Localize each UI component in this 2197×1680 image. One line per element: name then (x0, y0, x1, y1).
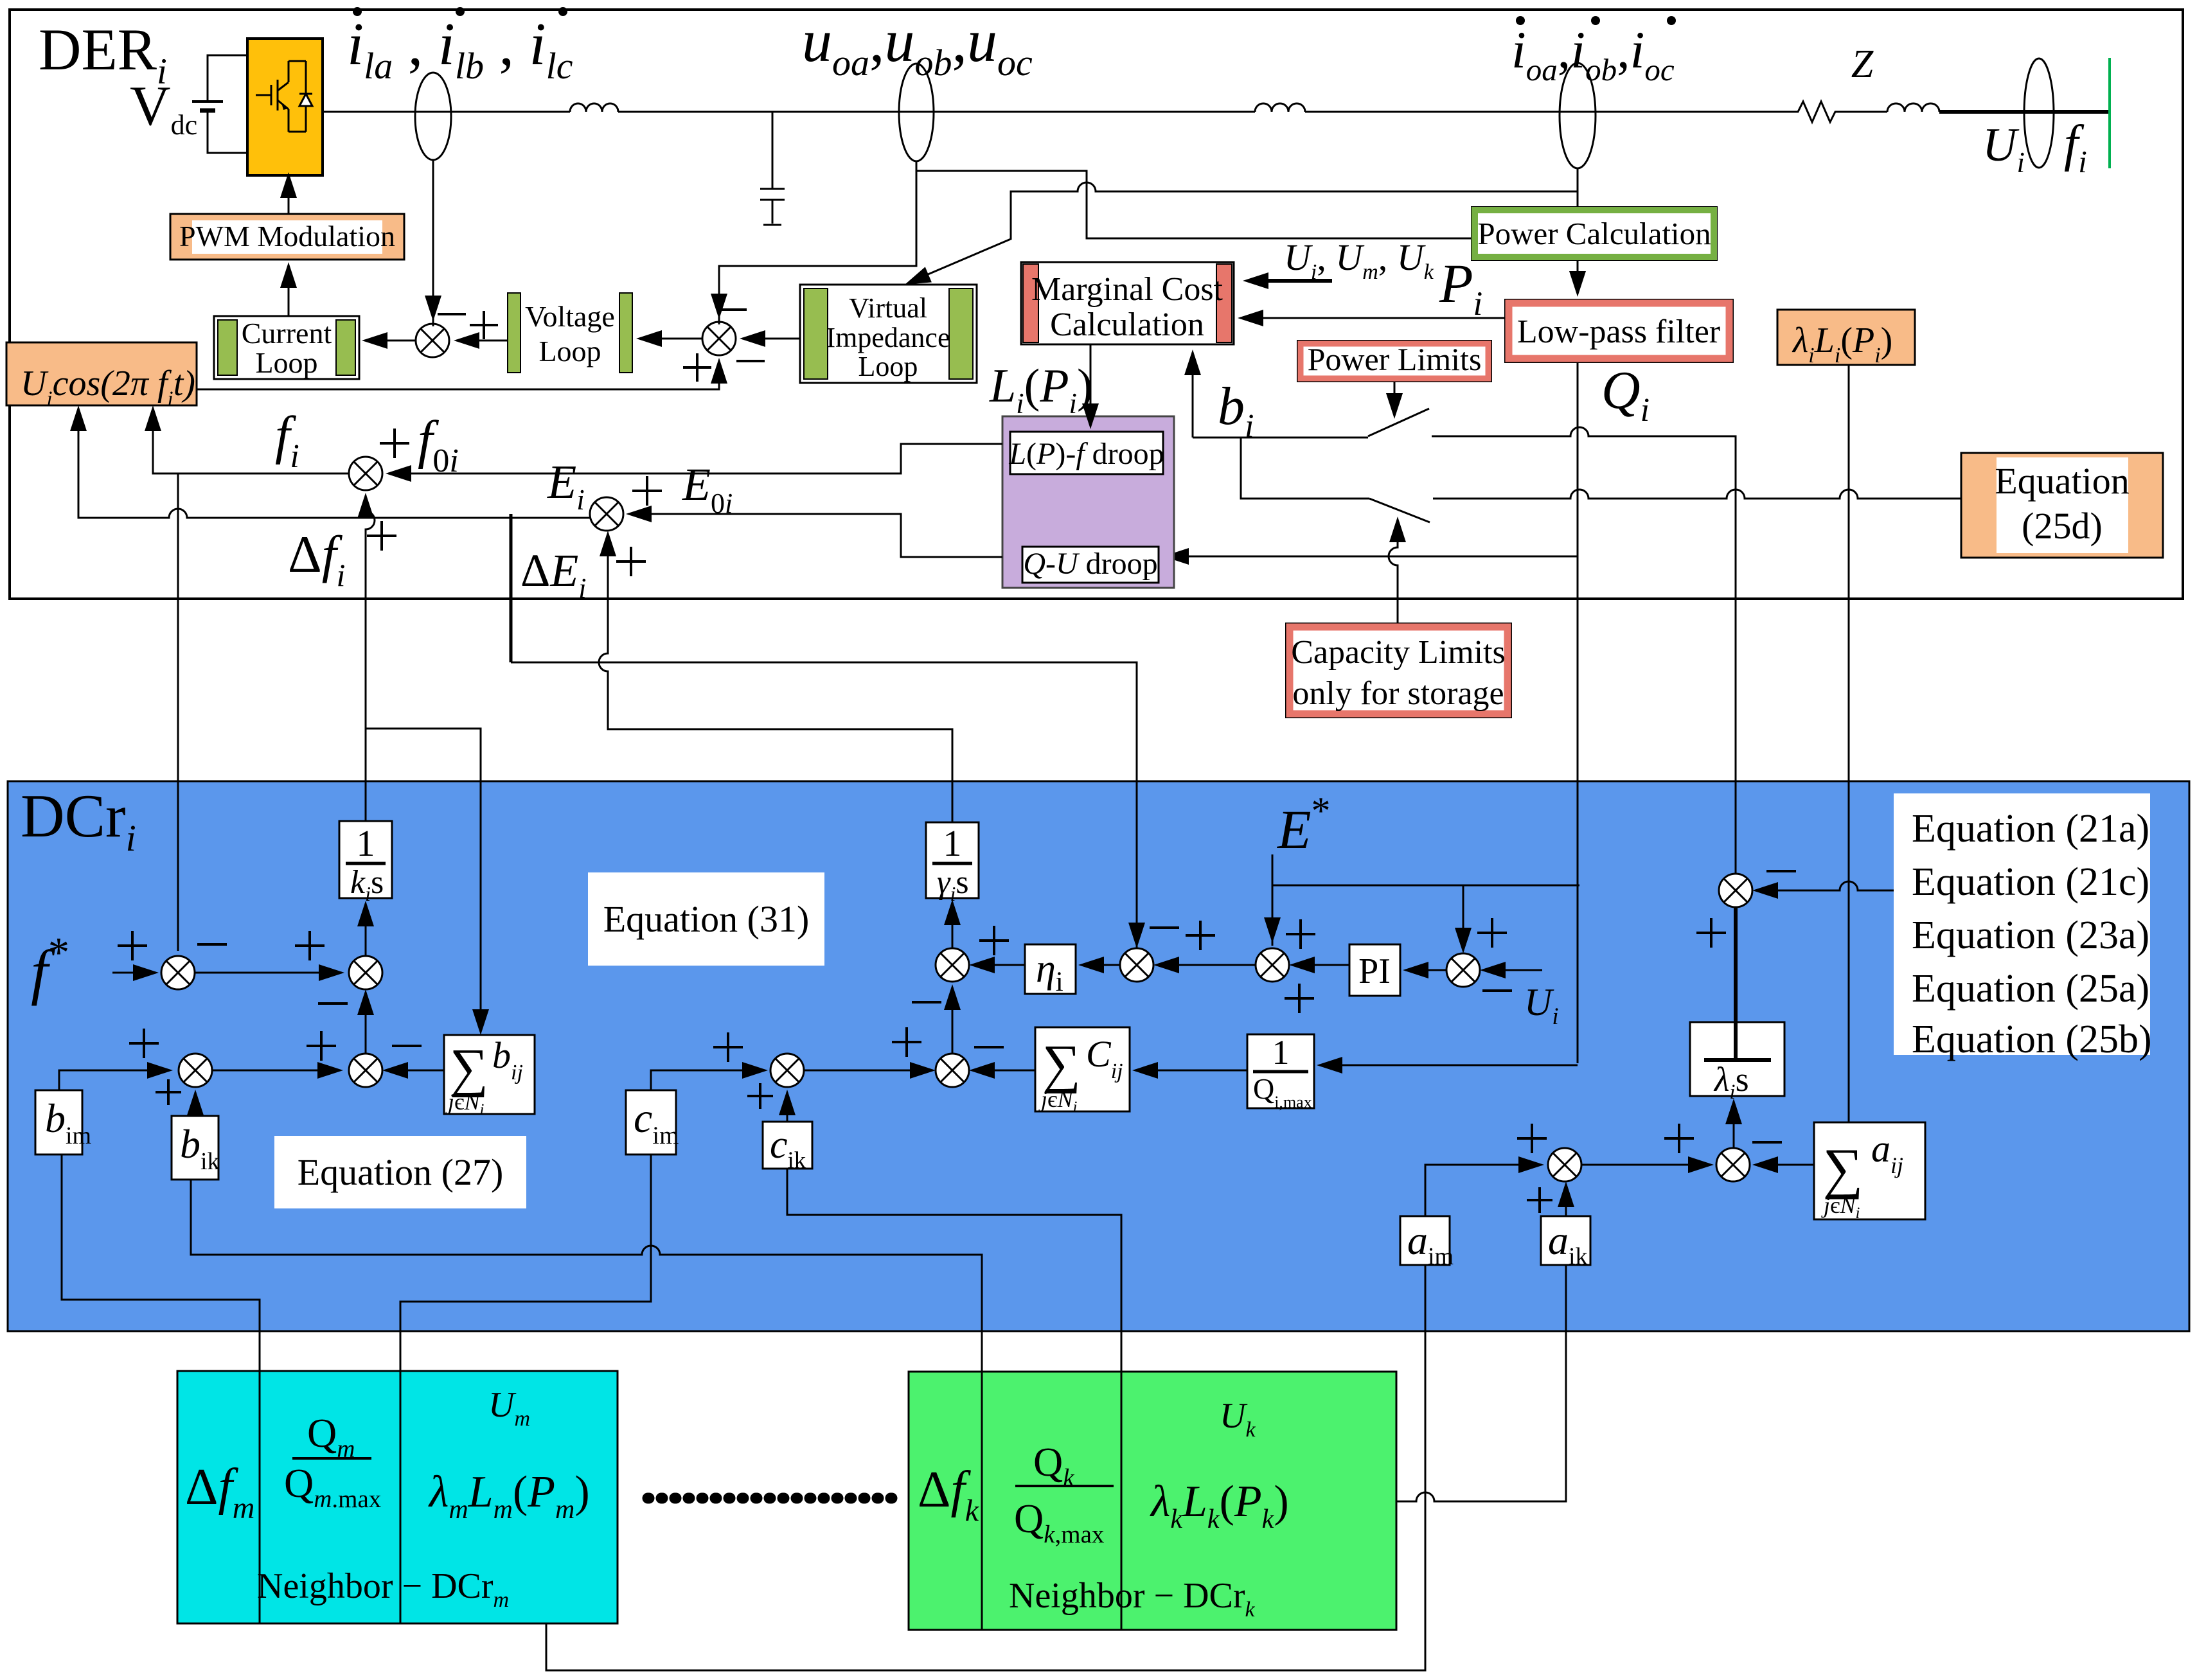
block Q-U droop (1022, 547, 1159, 583)
svg-text:Ui, Um, Uk: Ui, Um, Uk (1284, 236, 1434, 284)
wire Virtual Impedance Loop to sum2 (742, 338, 800, 340)
block integrator 1/k_i s (339, 821, 392, 898)
wire Current Loop to PWM (288, 265, 290, 316)
label box Equation (27) (274, 1136, 526, 1208)
svg-text:Virtual: Virtual (849, 292, 927, 324)
wire 1/Q_imax to Sum C_ij (1135, 1070, 1247, 1072)
wire a_ik to Ja1 (1565, 1184, 1567, 1216)
label box Equation (31) (588, 872, 824, 966)
svg-text:jєNi: jєNi (445, 1089, 484, 1119)
wire E_i tap (thick) down and to eta junction (510, 514, 513, 662)
svg-text:Equation: Equation (1995, 460, 2129, 502)
wire PWM to inverter (288, 177, 290, 214)
IGBT symbol inside inverter (256, 80, 289, 111)
DCr_i blue container (8, 781, 2189, 1331)
cyan divider 1 (259, 1371, 261, 1623)
svg-text:Equation (25b): Equation (25b) (1912, 1018, 2152, 1061)
wire Delta f_i branch to Sum b_ij (366, 729, 481, 1030)
block L(P)-f droop (1010, 432, 1163, 474)
wire Jpi to PI (1405, 969, 1446, 971)
svg-text:Z: Z (1851, 42, 1874, 86)
wire Ucos reference to sum2 bottom (197, 360, 719, 389)
wire switch2 to Equation 25d (1433, 490, 1961, 499)
voltage sensor ellipse u_o (899, 64, 934, 161)
wire E* down to Je2 and branch to Jpi (1272, 854, 1274, 946)
svg-text:Loop: Loop (538, 335, 601, 367)
dotted separator (648, 1493, 896, 1504)
cyan divider 2 (400, 1371, 402, 1623)
svg-text:PI: PI (1358, 951, 1391, 991)
inductor L2 on bus (1255, 103, 1305, 112)
summing junction J3 (b row left) (179, 1054, 212, 1087)
wire f_i feedback tap down into DCr (177, 473, 179, 953)
block integrator 1/lambda_i s (1690, 1022, 1784, 1096)
green divider 2 (1121, 1372, 1123, 1630)
battery V_dc (192, 100, 223, 103)
block a_ik (1541, 1216, 1590, 1265)
wire Equation list to J_lambda (1755, 881, 1894, 890)
wire Delta f_m from cyan to b_im (62, 1154, 260, 1371)
svg-text:1: 1 (357, 822, 375, 864)
wire Delta E_i up into sum_E (from integrator 1/gamma_i s) (599, 536, 952, 822)
wire Sum b_ij to J4 (385, 1070, 444, 1072)
svg-text:Equation (21a): Equation (21a) (1912, 807, 2149, 851)
wire E_0i from Q-U droop to sum_E (628, 514, 1002, 557)
wire Jc2 up to Jg (952, 987, 954, 1054)
wire b_i into Marginal Cost bottom (1192, 352, 1194, 438)
outer DER block frame (10, 10, 2183, 599)
block Virtual Impedance Loop (800, 285, 977, 383)
summing junction Je1 (1120, 948, 1153, 982)
svg-text:∑: ∑ (1042, 1034, 1081, 1094)
impedance Z: resistor (1793, 102, 1840, 122)
svg-text:jєNi: jєNi (1038, 1086, 1077, 1116)
block Equation (25d) (1961, 453, 2163, 558)
wire switch1 to lambda junction (1432, 427, 1736, 874)
wire J2 up to integrator 1/k_i s (365, 903, 367, 956)
wire b_im to J3 (59, 1070, 170, 1090)
thick PCC wire (1939, 110, 2110, 114)
svg-text:Loop: Loop (255, 346, 317, 379)
wire c_im to Jc1 (651, 1070, 765, 1090)
wire sum2 to Voltage Loop (639, 338, 702, 340)
svg-text:Equation (27): Equation (27) (298, 1151, 504, 1193)
summing junction Jc2 (936, 1054, 969, 1087)
svg-text:Neighbor − DCrm: Neighbor − DCrm (257, 1566, 509, 1612)
freewheel diode (299, 94, 312, 106)
wire Delta f_i up into sum_f (from integrator 1/k_i s) (366, 495, 375, 821)
label box Equation list (21a..25b) (1894, 793, 2150, 1055)
block Marginal Cost Calculation (1021, 262, 1234, 344)
wire E_i output to Ucos box (78, 411, 590, 518)
wire c_ik to Jc1 (787, 1092, 788, 1122)
block Sum C_ij (1035, 1027, 1130, 1111)
summing junction sum_f (349, 457, 382, 490)
wire sum1 to Current Loop (364, 340, 449, 342)
svg-text:Marginal Cost: Marginal Cost (1031, 271, 1223, 308)
svg-text:Equation (23a): Equation (23a) (1912, 914, 2149, 957)
wire Q_i vertical from Low-pass filter down into DCr (1577, 362, 1579, 1063)
block b_ik (172, 1116, 218, 1180)
svg-text:L(P)-f droop: L(P)-f droop (1008, 437, 1164, 471)
summing junction sum1 (current error) (416, 324, 449, 357)
wire J4 up to J2 (365, 992, 367, 1054)
droop container box (1002, 416, 1174, 588)
main AC bus wire (323, 111, 570, 113)
wire Power Limits to switch1 (1394, 382, 1396, 412)
wire i_l measurement down to sum1 (432, 160, 434, 326)
wire Jc1 to Jc2 (804, 1070, 933, 1072)
wire Je1 to eta (1081, 964, 1120, 966)
svg-text:Equation (21c): Equation (21c) (1912, 860, 2149, 904)
block integrator 1/gamma_i s (926, 822, 979, 898)
switch S1 blade (1368, 409, 1429, 436)
summing junction J1 (f* - f_i) (161, 956, 195, 989)
svg-text:jєNi: jєNi (1821, 1192, 1860, 1222)
wire Je2 to Je1 (1156, 964, 1256, 966)
block PWM Modulation (170, 214, 404, 260)
block U_i cos(2 pi f_i t) (6, 342, 197, 405)
summing junction sum2 (voltage error) (702, 322, 736, 355)
svg-text:Loop: Loop (858, 351, 918, 382)
wire Ja2 up to integrator (1733, 1101, 1735, 1148)
summing junction Je2 (E* +) (1256, 948, 1289, 982)
wire Marginal Cost to L(P)-f droop (1090, 344, 1092, 424)
svg-text:Calculation: Calculation (1050, 306, 1204, 343)
wire Sum a_ij to Ja2 (1755, 1164, 1814, 1166)
wire Q_k from green to c_ik (787, 1169, 1121, 1372)
wire Q_m from cyan to c_im (400, 1154, 651, 1371)
inverter block (247, 39, 323, 175)
wire Capacity Limits up to switch2 (1389, 520, 1398, 681)
current sensor ellipse i_o (1560, 63, 1596, 168)
wire battery to inverter bottom (208, 111, 247, 153)
block lambda_i L_i(P_i) (1777, 310, 1915, 365)
wire i_o branch to Virtual Impedance Loop (diagonal) (910, 182, 1578, 282)
switch S2 blade (1369, 499, 1430, 522)
summing junction Jg (gamma input) (936, 948, 969, 982)
svg-text:Q-U droop: Q-U droop (1023, 547, 1157, 581)
wire a_im to Ja1 (1425, 1165, 1542, 1216)
wire lambda_m from cyan bottom to a_im (546, 1265, 1425, 1670)
block Low-pass filter (1505, 299, 1733, 362)
svg-text:Power Limits: Power Limits (1308, 341, 1482, 377)
svg-text:Power Calculation: Power Calculation (1477, 216, 1711, 251)
wire f* into sumJ1 (112, 972, 156, 974)
block Capacity Limits only for storage (1286, 623, 1511, 718)
block c_ik (763, 1122, 812, 1169)
summing junction Jpi (1446, 953, 1480, 987)
summing junction Ja1 (1548, 1148, 1581, 1181)
impedance Z: inductor (1840, 111, 1887, 113)
green divider 1 (981, 1372, 983, 1630)
svg-text:Current: Current (242, 317, 332, 349)
summing junction sum_E (590, 497, 623, 531)
svg-text:Equation (31): Equation (31) (603, 898, 810, 940)
summing junction Jc1 (770, 1054, 804, 1087)
wire Voltage Loop to sum1 (456, 340, 508, 342)
wire Delta f_k from green to b_ik (191, 1180, 982, 1372)
block Voltage Loop (508, 293, 520, 373)
wire PI to Je2 (1292, 964, 1349, 966)
svg-text:1: 1 (1272, 1033, 1290, 1072)
svg-text:DCri: DCri (21, 782, 136, 859)
block Power Limits (1297, 340, 1491, 382)
svg-text:Voltage: Voltage (525, 300, 615, 333)
svg-text:1: 1 (943, 822, 962, 864)
Neighbor-DCr_m cyan box (177, 1371, 618, 1623)
block Power Calculation (1472, 207, 1717, 260)
wire Power Calculation to Low-pass filter (1577, 260, 1579, 292)
summing junction J_lambda (top right) (1719, 874, 1752, 907)
svg-text:PWM Modulation: PWM Modulation (179, 220, 395, 252)
svg-text:Impedance: Impedance (826, 322, 950, 353)
wire J_lambda to integrator (thick) (1734, 907, 1738, 1060)
wire Q_i to 1/Q_imax (1319, 1065, 1578, 1066)
block a_im (1400, 1216, 1450, 1265)
summing junction J2 (349, 956, 382, 989)
wire U_i U_m U_k thick arrow into Marginal Cost (1249, 279, 1332, 283)
svg-text:Neighbor − DCrk: Neighbor − DCrk (1009, 1576, 1256, 1622)
wire J3 to J4 (212, 1070, 341, 1072)
wire Sum C_ij to Jc2 (972, 1070, 1035, 1072)
wire f_i output to Ucos box (153, 411, 349, 473)
Neighbor-DCr_k green box (909, 1372, 1396, 1630)
wires re-drawn inside DCr box (verticals from top section) (177, 781, 179, 951)
wire f_0i from droop to sum_f (388, 444, 1002, 473)
svg-text:(25d): (25d) (2022, 505, 2103, 547)
current sensor ellipse i_l (415, 73, 451, 160)
svg-text:Capacity Limits: Capacity Limits (1291, 634, 1506, 671)
wire u_o down then left into sum2 (719, 161, 916, 324)
svg-text:Low-pass filter: Low-pass filter (1517, 314, 1720, 350)
svg-text:ΔEi: ΔEi (520, 545, 587, 604)
svg-text:Equation (25a): Equation (25a) (1912, 967, 2149, 1011)
svg-text:only for storage: only for storage (1292, 675, 1504, 712)
wire U_i stub into Jpi (1482, 969, 1542, 971)
wire Q_i to Q-U droop (1166, 556, 1578, 558)
wire P_i to Marginal Cost (1240, 317, 1505, 319)
sensor ellipse U_i (2024, 58, 2054, 168)
wire Ja1 to Ja2 (1581, 1164, 1711, 1166)
grid bus green line (2108, 58, 2111, 168)
filter capacitor to ground (760, 112, 785, 225)
wire eta to Jg (972, 964, 1025, 966)
wire lambda_k from green to a_ik (1297, 1265, 1566, 1501)
block 1/Q_imax (1247, 1034, 1314, 1108)
wire i_o down to Power Calculation (1577, 168, 1579, 207)
wire Jg up to integrator 1/gamma_i s (952, 902, 954, 948)
summing junction J4 (b row right) (349, 1054, 382, 1087)
wire lambda L down to Sum a_ij (1848, 365, 1850, 1122)
wire u_o branch to Power Calculation left input (916, 171, 1472, 238)
block eta_i (1025, 944, 1076, 994)
svg-text:∑: ∑ (1823, 1138, 1863, 1200)
inductor L1 on bus (570, 103, 618, 112)
wire J1 to J2 (195, 972, 342, 974)
svg-text:Li(Pi): Li(Pi) (989, 360, 1093, 420)
block Sum a_ij (1814, 1122, 1925, 1219)
block Current Loop (214, 316, 359, 379)
block c_im (626, 1090, 676, 1154)
wire b_ik to J3 (195, 1092, 197, 1116)
block b_im (35, 1090, 82, 1154)
summing junction Ja2 (1716, 1148, 1750, 1181)
block PI (1349, 944, 1400, 996)
wire battery to inverter top (208, 55, 247, 102)
block Sum b_ij (444, 1035, 535, 1114)
